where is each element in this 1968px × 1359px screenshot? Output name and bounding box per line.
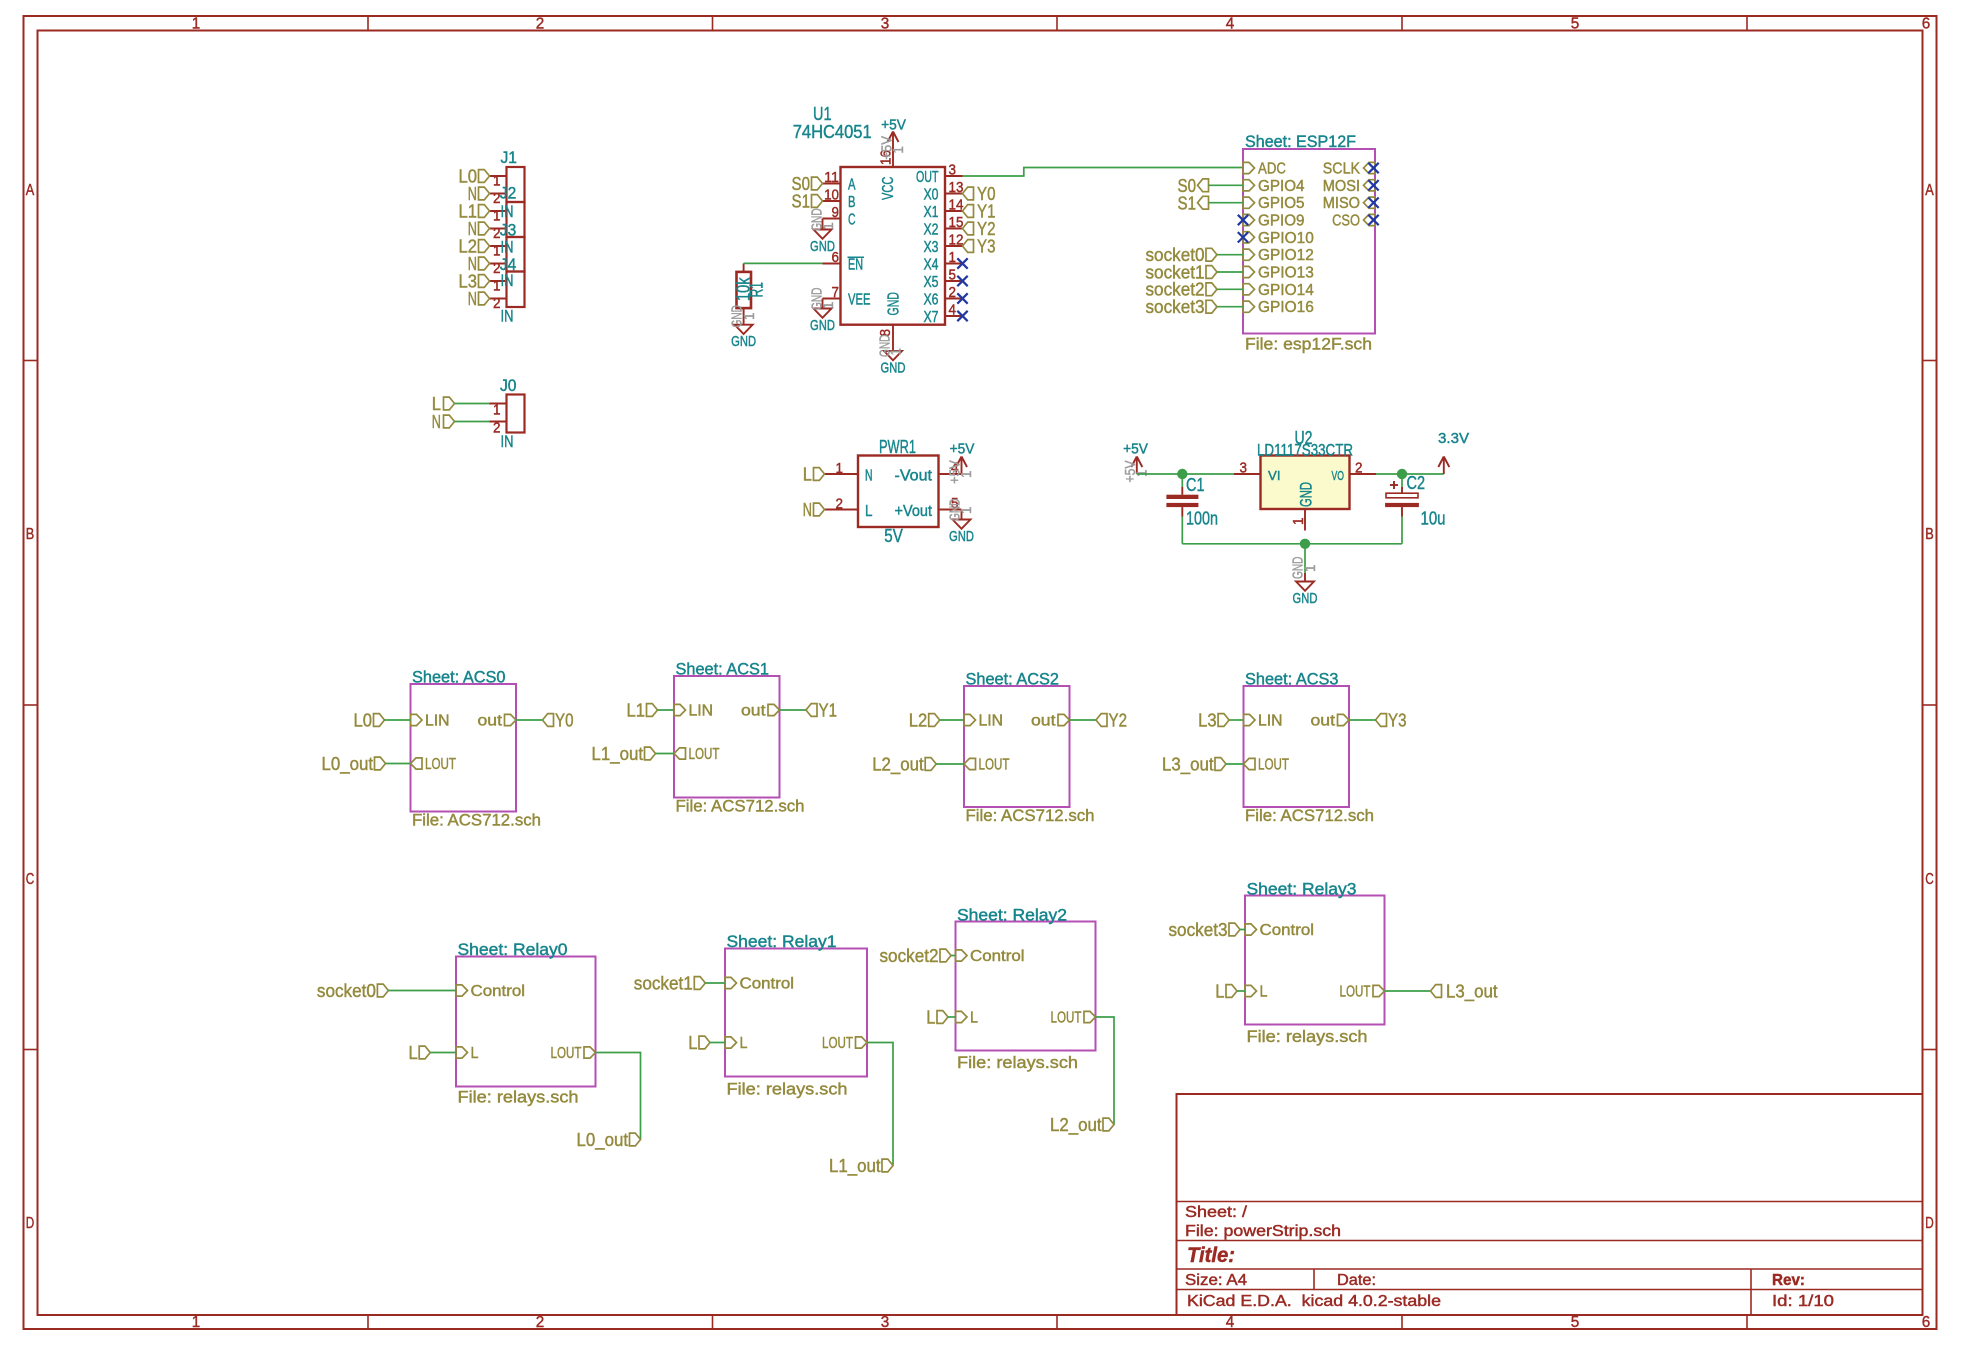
hierarchical label socket3 at Relay3 [1169, 919, 1241, 940]
U1 right pins OUT X0-X7 with numbers [916, 163, 963, 327]
wire socket2 to GPIO14 [1217, 288, 1243, 290]
J1-J4 reference and IN value texts [500, 148, 517, 326]
svg-text:11: 11 [824, 170, 839, 186]
svg-text:C: C [26, 871, 35, 888]
svg-text:IN: IN [501, 271, 514, 290]
hierarchical label S0 at U1 pin A [792, 173, 823, 194]
wire L1_out to ACS1 LOUT [656, 753, 675, 755]
wire socket3 to Relay3 Control [1240, 929, 1245, 931]
svg-text:L: L [1215, 981, 1224, 1002]
svg-text:4: 4 [1226, 16, 1235, 33]
svg-text:100n: 100n [1186, 508, 1218, 529]
wire L2_out to ACS2 LOUT [936, 763, 964, 765]
svg-text:1: 1 [493, 278, 501, 294]
svg-text:1: 1 [836, 461, 844, 477]
svg-text:L2_out: L2_out [872, 754, 924, 776]
ground at U1 pin VEE [809, 288, 837, 334]
svg-text:2: 2 [949, 285, 957, 301]
svg-text:X1: X1 [924, 204, 939, 221]
wire Relay0 LOUT to L0_out [596, 1053, 641, 1140]
svg-text:B: B [848, 194, 856, 211]
wire ACS1 out to Y1 [780, 709, 807, 711]
hierarchical label socket2 at Relay2 [880, 945, 952, 966]
svg-text:1: 1 [889, 348, 905, 356]
sheet Relay0 pin L [456, 1045, 479, 1062]
svg-text:J2: J2 [500, 183, 517, 202]
svg-text:4: 4 [949, 303, 957, 319]
hierarchical label L2 at ACS2 [909, 710, 940, 731]
svg-text:IN: IN [501, 432, 514, 451]
hierarchical label Y2 at ACS2 [1096, 710, 1127, 731]
svg-text:out: out [478, 713, 503, 730]
hierarchical label S1 at U1 pin B [792, 191, 823, 212]
svg-text:PWR1: PWR1 [879, 436, 916, 457]
svg-text:IN: IN [501, 307, 514, 326]
svg-text:VEE: VEE [848, 292, 871, 309]
svg-text:X3: X3 [924, 239, 939, 256]
svg-text:3: 3 [1240, 461, 1248, 477]
sheet Relay3 pin Control [1245, 922, 1314, 939]
wire ACS3 out to Y3 [1349, 719, 1376, 721]
hierarchical label L2_out at Relay2 [1050, 1114, 1114, 1136]
wire L3 to ACS3 LIN [1229, 719, 1243, 721]
svg-text:File: ACS712.sch: File: ACS712.sch [1245, 806, 1374, 825]
svg-text:2: 2 [493, 296, 501, 312]
wire socket0 to GPIO12 [1217, 254, 1243, 256]
svg-text:GND: GND [810, 238, 835, 255]
svg-text:L2_out: L2_out [1050, 1114, 1102, 1136]
wire ground bus under U2 [1182, 543, 1402, 545]
svg-text:N: N [803, 499, 812, 520]
svg-text:L3: L3 [1198, 710, 1217, 731]
svg-text:LIN: LIN [979, 713, 1004, 730]
transformer PWR1 body [858, 436, 939, 546]
sheet ACS2 pin LIN [964, 713, 1003, 730]
svg-text:L: L [865, 503, 873, 520]
svg-text:L1_out: L1_out [592, 743, 644, 765]
hierarchical label L at Relay1 [688, 1032, 710, 1053]
svg-text:9: 9 [832, 205, 840, 221]
svg-text:13: 13 [949, 180, 964, 196]
svg-text:Control: Control [471, 983, 526, 1000]
svg-text:Control: Control [740, 976, 795, 993]
ground at R1 [730, 305, 758, 350]
hierarchical label Y2 at U1 [963, 218, 996, 239]
svg-text:R1: R1 [745, 282, 766, 298]
svg-text:X2: X2 [924, 222, 939, 239]
title block [1177, 1094, 1923, 1315]
svg-text:+Vout: +Vout [895, 503, 933, 520]
svg-text:1: 1 [1303, 565, 1319, 573]
svg-text:Title:: Title: [1187, 1244, 1235, 1267]
svg-text:Y0: Y0 [555, 710, 574, 731]
svg-text:X0: X0 [924, 187, 939, 204]
ground at PWR1 pin 5 [948, 499, 976, 545]
svg-text:5: 5 [1571, 16, 1580, 33]
wire socket2 to Relay2 Control [951, 955, 956, 957]
wire L to Relay0 [430, 1052, 456, 1054]
svg-text:out: out [741, 703, 766, 720]
svg-text:LD1117S33CTR: LD1117S33CTR [1257, 440, 1353, 459]
sheet Relay0 box [456, 940, 596, 1107]
svg-text:X7: X7 [924, 309, 939, 326]
sheet ACS0 pin LIN [411, 713, 450, 730]
hierarchical label L2_out at ACS2 [872, 754, 936, 776]
svg-text:L2: L2 [909, 710, 928, 731]
sheet Relay0 pin Control [456, 983, 525, 1000]
svg-text:L1: L1 [627, 700, 646, 721]
hierarchical label S0 at ESP12F [1178, 175, 1209, 196]
junction at C2 top [1397, 469, 1407, 479]
svg-text:Rev:: Rev: [1772, 1272, 1805, 1289]
hierarchical label socket1 at Relay1 [634, 973, 706, 994]
svg-text:GPIO5: GPIO5 [1258, 195, 1305, 212]
wire socket3 to GPIO16 [1217, 306, 1243, 308]
svg-text:7: 7 [832, 285, 840, 301]
sheet Relay2 box [956, 906, 1096, 1073]
hierarchical label Y3 at ACS3 [1376, 710, 1407, 731]
svg-text:GND: GND [1293, 590, 1318, 607]
svg-text:B: B [1925, 526, 1934, 543]
svg-text:L: L [803, 464, 812, 485]
svg-text:N: N [432, 411, 441, 432]
svg-text:5: 5 [1571, 1314, 1580, 1331]
svg-text:2: 2 [493, 421, 501, 437]
svg-text:File: ACS712.sch: File: ACS712.sch [676, 797, 805, 816]
svg-text:GND: GND [949, 528, 974, 545]
svg-text:Y1: Y1 [819, 700, 838, 721]
svg-text:Sheet: Relay0: Sheet: Relay0 [458, 940, 568, 959]
svg-text:Sheet: ACS3: Sheet: ACS3 [1245, 670, 1339, 689]
svg-text:IN: IN [501, 202, 514, 221]
svg-text:Sheet: ACS0: Sheet: ACS0 [412, 668, 506, 687]
svg-text:L3_out: L3_out [1446, 981, 1498, 1003]
hierarchical label N at PWR1 [803, 499, 825, 520]
sheet ACS1 pin LOUT [674, 746, 720, 763]
svg-text:1: 1 [192, 1314, 201, 1331]
svg-text:C: C [848, 212, 856, 229]
svg-text:10: 10 [824, 188, 839, 204]
svg-text:LOUT: LOUT [1051, 1010, 1082, 1027]
svg-text:1: 1 [821, 302, 837, 310]
hierarchical label Y3 at U1 [963, 236, 996, 257]
svg-text:A: A [848, 177, 856, 194]
svg-text:LOUT: LOUT [822, 1035, 853, 1052]
connector J1 J2 J3 J4 stack body [507, 167, 525, 307]
svg-text:KiCad E.D.A. kicad 4.0.2-stab: KiCad E.D.A. kicad 4.0.2-stable [1187, 1293, 1441, 1310]
svg-text:L1_out: L1_out [829, 1155, 881, 1177]
svg-text:Sheet: Relay3: Sheet: Relay3 [1247, 880, 1357, 899]
wire ACS0 out to Y0 [516, 719, 543, 721]
sheet ACS3 pin LIN [1244, 713, 1283, 730]
sheet Relay3 pin LOUT [1340, 984, 1385, 1001]
svg-text:File: relays.sch: File: relays.sch [727, 1080, 848, 1099]
svg-text:LOUT: LOUT [689, 746, 720, 763]
svg-text:10u: 10u [1421, 508, 1446, 529]
hierarchical label N at J0 [432, 411, 455, 432]
resistor R1 10k [733, 263, 767, 324]
svg-text:VO: VO [1332, 468, 1345, 483]
hierarchical label L at Relay2 [926, 1007, 948, 1028]
svg-text:14: 14 [949, 198, 964, 214]
sheet Relay2 pin LOUT [1051, 1010, 1096, 1027]
wire L0_out to ACS0 LOUT [386, 763, 411, 765]
hierarchical label L0 at ACS0 [354, 710, 385, 731]
svg-text:C2: C2 [1407, 472, 1426, 493]
svg-text:GPIO16: GPIO16 [1258, 299, 1314, 316]
svg-text:Sheet: /: Sheet: / [1185, 1204, 1248, 1221]
svg-text:LIN: LIN [1258, 713, 1283, 730]
svg-text:L: L [1260, 984, 1268, 1001]
svg-text:File: esp12F.sch: File: esp12F.sch [1245, 335, 1372, 354]
svg-text:GND: GND [1297, 482, 1316, 507]
svg-text:A: A [1925, 182, 1934, 199]
wire S0 to GPIO4 [1209, 184, 1244, 186]
sheet Relay1 pin Control [725, 976, 794, 993]
hierarchical label Y0 at ACS0 [543, 710, 574, 731]
wire L to Relay1 [710, 1042, 725, 1044]
power +5V at PWR1 pin 4 [948, 441, 976, 485]
svg-text:File: ACS712.sch: File: ACS712.sch [412, 811, 541, 830]
hierarchical label socket1 at ESP12F [1146, 261, 1218, 282]
svg-text:A: A [26, 182, 35, 199]
svg-text:6: 6 [1922, 16, 1931, 33]
sheet ACS0 pin out [478, 713, 517, 730]
wire socket1 to GPIO13 [1217, 271, 1243, 273]
op-amp U1 74HC4051 body [793, 103, 945, 325]
wire +5V to U2 VI [1137, 473, 1261, 475]
sheet ESP12F right pins SPI [1323, 161, 1375, 230]
svg-text:SCLK: SCLK [1323, 161, 1360, 178]
ground at U1 pin C [809, 208, 837, 255]
sheet ESP12F box [1243, 132, 1375, 354]
svg-text:1: 1 [742, 313, 758, 321]
svg-text:2: 2 [536, 16, 545, 33]
svg-text:3.3V: 3.3V [1438, 430, 1469, 447]
wire junction to GND [1304, 544, 1306, 573]
svg-text:N: N [468, 288, 477, 309]
sheet ACS3 pin out [1311, 713, 1350, 730]
sheet ACS1 pin LIN [674, 703, 713, 720]
svg-text:socket1: socket1 [634, 973, 693, 994]
sheet Relay3 pin L [1245, 984, 1268, 1001]
svg-text:X4: X4 [924, 257, 939, 274]
hierarchical label L0_out at Relay0 [577, 1129, 641, 1151]
svg-text:C: C [1925, 871, 1934, 888]
sheet Relay2 pin L [956, 1010, 979, 1027]
wire L to Relay3 [1237, 990, 1245, 992]
no-connect marks at ESP12F SCLK MOSI MISO CSO [1368, 163, 1378, 225]
hierarchical label socket0 at Relay0 [317, 980, 389, 1001]
svg-text:LOUT: LOUT [425, 756, 456, 773]
svg-text:Y3: Y3 [977, 236, 996, 257]
wire N to J0 pin2 [455, 421, 490, 423]
svg-text:out: out [1311, 713, 1336, 730]
hierarchical label L1_out at ACS1 [592, 743, 656, 765]
svg-text:1: 1 [959, 507, 975, 515]
sheet Relay1 pin LOUT [822, 1035, 867, 1052]
svg-text:L: L [409, 1042, 418, 1063]
connector J0 [490, 376, 525, 451]
wire socket0 to Relay0 Control [388, 990, 456, 992]
svg-text:1: 1 [959, 471, 975, 479]
hierarchical label L at Relay3 [1215, 981, 1237, 1002]
wire socket1 to Relay1 Control [705, 982, 725, 984]
junction at C1 top [1177, 469, 1187, 479]
svg-text:L0_out: L0_out [322, 753, 374, 775]
svg-text:5V: 5V [884, 525, 903, 546]
svg-text:Control: Control [970, 948, 1025, 965]
hierarchical label Y0 at U1 [963, 183, 996, 204]
hierarchical label L at J0 [432, 393, 455, 414]
U2 pins 3 2 1 [1234, 461, 1376, 531]
svg-text:L0_out: L0_out [577, 1129, 629, 1151]
svg-text:socket3: socket3 [1146, 296, 1205, 317]
hierarchical label Y1 at ACS1 [806, 700, 837, 721]
wire L0 to ACS0 LIN [385, 719, 411, 721]
wire C1 to ground bus [1181, 517, 1183, 544]
sheet ESP12F left pins ADC GPIO [1243, 161, 1314, 317]
sheet Relay1 pin L [725, 1035, 748, 1052]
svg-text:GND: GND [731, 333, 756, 350]
svg-text:5: 5 [949, 268, 957, 284]
svg-text:File: relays.sch: File: relays.sch [957, 1053, 1078, 1072]
svg-text:3: 3 [881, 16, 890, 33]
svg-text:3: 3 [881, 1314, 890, 1331]
svg-text:LIN: LIN [425, 713, 450, 730]
svg-text:2: 2 [536, 1314, 545, 1331]
svg-text:VI: VI [1268, 468, 1281, 483]
svg-text:D: D [26, 1215, 35, 1232]
wire L to J0 pin1 [455, 403, 490, 405]
svg-text:Size: A4: Size: A4 [1185, 1272, 1247, 1289]
sheet Relay3 box [1245, 880, 1385, 1047]
wire Relay3 LOUT to L3_out [1385, 990, 1431, 992]
svg-text:Sheet: ACS2: Sheet: ACS2 [966, 670, 1060, 689]
ground at U1 pin 8 [878, 325, 906, 377]
wire L to Relay2 [948, 1016, 956, 1018]
hierarchical label L at Relay0 [409, 1042, 431, 1063]
svg-text:GPIO4: GPIO4 [1258, 178, 1305, 195]
sheet Relay2 pin Control [956, 948, 1025, 965]
svg-text:GPIO13: GPIO13 [1258, 265, 1314, 282]
regulator U2 LD1117S33CTR body [1257, 427, 1353, 509]
svg-text:LOUT: LOUT [979, 757, 1010, 774]
sheet ACS1 box [674, 660, 805, 816]
wire C2 to ground bus [1401, 517, 1403, 544]
svg-text:Sheet: ESP12F: Sheet: ESP12F [1245, 132, 1356, 151]
svg-text:Y3: Y3 [1388, 710, 1407, 731]
no-connect marks at U1 X4-X7 [957, 258, 967, 321]
svg-text:ADC: ADC [1258, 161, 1286, 178]
svg-text:socket3: socket3 [1169, 919, 1228, 940]
hierarchical label L3 at ACS3 [1198, 710, 1229, 731]
svg-text:File: relays.sch: File: relays.sch [1247, 1027, 1368, 1046]
wire ACS2 out to Y2 [1070, 719, 1097, 721]
svg-text:Sheet: Relay2: Sheet: Relay2 [957, 906, 1067, 925]
hierarchical label Y1 at U1 [963, 201, 996, 222]
svg-text:X6: X6 [924, 292, 939, 309]
hierarchical label S1 at ESP12F [1178, 192, 1209, 213]
svg-text:OUT: OUT [916, 169, 939, 186]
svg-text:Id: 1/10: Id: 1/10 [1772, 1293, 1834, 1310]
svg-text:File: ACS712.sch: File: ACS712.sch [966, 806, 1095, 825]
no-connect marks at ESP12F GPIO9 GPIO10 [1238, 215, 1248, 243]
svg-text:LOUT: LOUT [1258, 757, 1289, 774]
svg-text:L0: L0 [354, 710, 373, 731]
sheet Relay0 pin LOUT [551, 1045, 596, 1062]
svg-text:L: L [970, 1010, 978, 1027]
hierarchical label socket0 at ESP12F [1146, 244, 1218, 265]
svg-text:+5V: +5V [950, 441, 975, 458]
svg-text:LOUT: LOUT [1340, 984, 1371, 1001]
svg-text:GPIO12: GPIO12 [1258, 247, 1314, 264]
svg-text:Sheet: Relay1: Sheet: Relay1 [727, 932, 837, 951]
svg-text:out: out [1031, 713, 1056, 730]
svg-text:1: 1 [1291, 518, 1307, 526]
svg-text:socket0: socket0 [317, 980, 376, 1001]
sheet ACS1 pin out [741, 703, 780, 720]
svg-text:File: relays.sch: File: relays.sch [458, 1088, 579, 1107]
svg-text:1: 1 [192, 16, 201, 33]
svg-text:1: 1 [949, 250, 957, 266]
svg-text:J0: J0 [500, 376, 517, 395]
ground under U2 [1291, 557, 1320, 608]
wire R1 to U1 EN pin 6 [744, 262, 823, 264]
svg-text:J1: J1 [501, 148, 518, 167]
svg-text:L: L [740, 1035, 748, 1052]
svg-text:1: 1 [891, 146, 907, 154]
hierarchical label L0_out at ACS0 [322, 753, 386, 775]
hierarchical label L1 at ACS1 [627, 700, 658, 721]
wire Relay1 LOUT to L1_out [867, 1043, 893, 1166]
svg-text:File: powerStrip.sch: File: powerStrip.sch [1185, 1223, 1341, 1240]
svg-text:C1: C1 [1186, 474, 1205, 495]
svg-text:LIN: LIN [689, 703, 714, 720]
svg-text:S1: S1 [1178, 192, 1197, 213]
svg-text:4: 4 [1226, 1314, 1235, 1331]
svg-text:EN: EN [848, 257, 863, 274]
junction at ground bus [1300, 539, 1310, 549]
hierarchical label socket3 at ESP12F [1146, 296, 1218, 317]
svg-text:B: B [26, 526, 35, 543]
svg-text:L: L [471, 1045, 479, 1062]
power +5V at U1 VCC pin 16 [879, 117, 908, 168]
svg-text:12: 12 [949, 233, 964, 249]
wire S1 to GPIO5 [1209, 202, 1244, 204]
wire Relay2 LOUT to L2_out [1096, 1017, 1115, 1125]
svg-text:GND: GND [881, 360, 906, 377]
svg-text:Y2: Y2 [1109, 710, 1128, 731]
power +5V at U2 input [1123, 441, 1151, 483]
svg-text:6: 6 [1922, 1314, 1931, 1331]
svg-text:-Vout: -Vout [895, 468, 933, 485]
hierarchical label L3_out at ACS3 [1162, 754, 1226, 776]
svg-text:X5: X5 [924, 274, 939, 291]
PWR1 pins 1 2 4 5 [825, 461, 962, 513]
sheet Relay1 box [725, 932, 867, 1099]
svg-text:+5V: +5V [1123, 441, 1148, 458]
svg-text:Date:: Date: [1337, 1272, 1376, 1289]
svg-text:GPIO9: GPIO9 [1258, 213, 1305, 230]
svg-text:1: 1 [493, 403, 501, 419]
svg-text:2: 2 [836, 497, 844, 513]
sheet ACS2 box [964, 670, 1095, 826]
svg-text:+5V: +5V [881, 117, 906, 134]
sheet ACS3 box [1244, 670, 1375, 826]
svg-text:N: N [865, 468, 873, 485]
svg-text:IN: IN [501, 237, 514, 256]
